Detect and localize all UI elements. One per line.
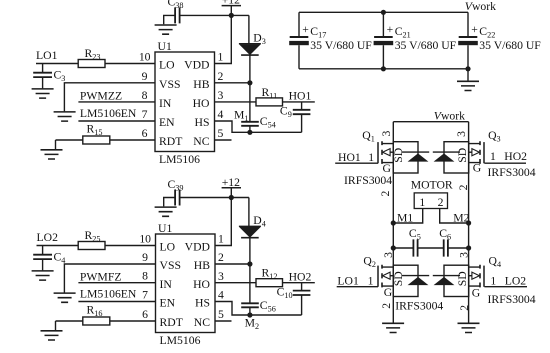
svg-text:G: G	[472, 286, 481, 299]
svg-text:+: +	[302, 23, 309, 36]
wire diode to HB node	[249, 55, 251, 83]
capacitor C39	[175, 190, 180, 206]
wire HB pin 2	[215, 82, 250, 84]
svg-text:PWMZZ: PWMZZ	[80, 90, 122, 103]
junction HB node	[247, 80, 252, 85]
svg-text:3: 3	[218, 89, 224, 102]
ground for VSS	[54, 293, 76, 302]
svg-text:1: 1	[218, 233, 224, 246]
svg-text:7: 7	[142, 289, 148, 302]
wire PWMZZ to IN pin 8	[78, 101, 155, 103]
wire Q3 gate to HO2 net	[484, 162, 526, 164]
svg-text:1: 1	[368, 274, 374, 287]
+12 bar	[222, 187, 241, 189]
svg-text:1: 1	[218, 51, 224, 64]
svg-text:NC: NC	[193, 135, 209, 148]
svg-text:Vwork: Vwork	[434, 110, 465, 123]
junction M2 node	[466, 220, 471, 225]
wire cap to ground	[42, 77, 44, 88]
wire down to C3	[42, 64, 44, 73]
svg-text:LO1: LO1	[337, 274, 359, 287]
wire +12 bar down	[230, 188, 232, 198]
wire bootstrap cap to HS node	[249, 307, 251, 315]
diode D3	[239, 43, 261, 45]
ground under Q2	[382, 323, 404, 332]
wire HS pin 4 to switch node	[215, 302, 302, 316]
wire down to ground	[55, 321, 57, 330]
svg-text:2: 2	[218, 251, 224, 264]
svg-text:35 V/680 UF: 35 V/680 UF	[310, 39, 372, 52]
svg-text:1: 1	[368, 151, 374, 164]
capacitor C5	[413, 239, 417, 256]
wire motor pin2 to M2 node	[440, 209, 469, 224]
svg-text:+: +	[387, 23, 394, 36]
svg-text:M1: M1	[397, 211, 413, 224]
svg-text:LO1: LO1	[36, 49, 58, 62]
wire M1 leg to C5	[393, 247, 413, 249]
resistor R11	[256, 98, 283, 106]
svg-text:LM5106EN: LM5106EN	[80, 288, 137, 301]
wire down to C10	[301, 283, 303, 291]
svg-text:10: 10	[139, 233, 151, 246]
ground under C4	[32, 271, 54, 280]
junction HS / M node	[247, 312, 252, 317]
wire bridge top rail	[393, 121, 468, 123]
wire cap to ground	[164, 15, 175, 24]
wire HB node down to bootstrap cap	[249, 83, 251, 122]
junction HB node	[247, 261, 252, 266]
svg-text:VSS: VSS	[160, 259, 181, 272]
wire HS pin 4 to switch node	[215, 121, 302, 132]
ground for R16	[41, 331, 63, 340]
svg-text:2: 2	[458, 305, 471, 311]
wire R to HO1 net	[283, 101, 315, 103]
junction C21 top	[381, 10, 386, 15]
wire HO pin 3	[215, 101, 257, 103]
ground for R15	[41, 150, 63, 159]
svg-text:IRFS3004: IRFS3004	[395, 300, 443, 313]
svg-text:1: 1	[419, 196, 425, 209]
svg-text:G: G	[473, 161, 482, 174]
junction +12 node	[229, 13, 234, 18]
wire Q4 gate to LO2 net	[484, 286, 527, 288]
wire bootstrap cap to HS node	[249, 126, 251, 133]
wire R to HO2 net	[283, 282, 315, 284]
wire cap to +12 node	[180, 14, 249, 16]
svg-text:7: 7	[142, 108, 148, 121]
wire down to C4	[42, 246, 44, 255]
svg-text:IN: IN	[159, 97, 172, 110]
wire to C17 +	[298, 12, 300, 37]
svg-text:IRFS3004: IRFS3004	[488, 293, 536, 306]
svg-text:LO2: LO2	[505, 274, 527, 287]
svg-text:VDD: VDD	[185, 241, 210, 254]
wire cap to ground	[42, 259, 44, 270]
capacitor C38	[175, 7, 180, 23]
wire cap down to HS line	[301, 114, 303, 132]
svg-text:LO: LO	[160, 241, 176, 254]
svg-text:3: 3	[380, 131, 393, 137]
svg-text:Vwork: Vwork	[465, 0, 496, 13]
wire ground to R16	[56, 320, 83, 322]
+12 bar	[222, 5, 241, 7]
transistor Q4 (IRFS3004 MOSFET symbol with body diode)	[433, 265, 484, 297]
svg-text:G: G	[384, 286, 393, 299]
wire HO pin 3	[215, 282, 256, 284]
svg-text:U1: U1	[158, 40, 172, 53]
svg-text:HO: HO	[193, 97, 210, 110]
wire LM5106EN to EN pin 7	[78, 120, 155, 122]
transistor Q3 (IRFS3004 MOSFET symbol with body diode)	[433, 141, 484, 173]
svg-text:RDT: RDT	[159, 135, 182, 148]
wire cap to ground	[164, 198, 175, 207]
resistor R23	[78, 60, 105, 68]
svg-text:2: 2	[438, 196, 444, 209]
ground for C38	[155, 25, 177, 34]
wire left leg Q1-Q2	[392, 122, 394, 323]
wire to cap bank ground	[467, 69, 469, 81]
junction HS / M node	[247, 130, 252, 135]
svg-text:5: 5	[218, 127, 224, 140]
svg-text:U1: U1	[158, 222, 172, 235]
wire to C21 +	[382, 12, 384, 37]
wire diode to HB node	[249, 238, 251, 264]
wire LO1 net to Q2 gate	[337, 286, 378, 288]
svg-text:IN: IN	[160, 278, 173, 291]
junction C5 left	[391, 245, 396, 250]
wire down to C9	[301, 102, 303, 110]
wire +12 node to D4	[248, 198, 250, 227]
op-amp/driver IC U1 bottom LM5106	[156, 234, 216, 333]
resistor R25	[78, 242, 105, 250]
svg-text:HO: HO	[193, 278, 210, 291]
svg-text:35 V/680 UF: 35 V/680 UF	[479, 39, 541, 52]
svg-text:EN: EN	[160, 297, 176, 310]
wire R to RDT pin 6	[110, 320, 156, 322]
wire +12 node to VDD pin 1	[215, 198, 231, 246]
wire cap to +12 node	[180, 197, 249, 199]
wire motor pin1 to M1 node	[393, 209, 422, 224]
svg-text:HS: HS	[195, 116, 210, 129]
wire R to pin 10	[105, 63, 155, 65]
svg-text:6: 6	[142, 308, 148, 321]
wire right leg Q3-Q4	[468, 122, 470, 323]
svg-text:PWMFZ: PWMFZ	[80, 271, 122, 284]
svg-text:+: +	[471, 23, 478, 36]
ground under Q4	[458, 323, 480, 332]
ground of cap bank	[457, 81, 479, 90]
transistor Q2 (IRFS3004 MOSFET symbol with body diode)	[378, 265, 429, 297]
svg-text:4: 4	[218, 289, 224, 302]
svg-text:3: 3	[455, 131, 468, 137]
wire ground to R15	[56, 139, 83, 141]
svg-text:6: 6	[142, 127, 148, 140]
capacitor C6	[444, 239, 448, 256]
svg-text:VDD: VDD	[184, 59, 209, 72]
svg-text:3: 3	[457, 252, 470, 258]
svg-text:LO: LO	[159, 59, 175, 72]
capacitor C9	[293, 110, 311, 114]
wire LO1 to R left	[36, 63, 78, 65]
wire R to pin 10	[105, 245, 156, 247]
junction M1 node	[391, 220, 396, 225]
capacitor C10	[293, 291, 311, 295]
transistor Q1 (IRFS3004 MOSFET symbol with body diode)	[378, 141, 429, 173]
wire PWMFZ to IN pin 8	[78, 282, 155, 284]
resistor R12	[256, 279, 283, 287]
wire HB node down to bootstrap cap	[249, 264, 251, 303]
svg-text:HO2: HO2	[289, 270, 312, 283]
wire +12 node to VDD pin 1	[215, 15, 232, 63]
junction C21 bottom	[381, 66, 386, 71]
wire VSS pin 9 to ground	[64, 83, 155, 112]
capacitor C54	[241, 122, 259, 126]
wire C21 to bottom rail	[382, 45, 384, 69]
svg-text:MOTOR: MOTOR	[411, 179, 453, 192]
ground under C3	[32, 89, 54, 98]
svg-text:HO2: HO2	[504, 150, 527, 163]
wire cap bank bottom rail	[299, 68, 468, 70]
svg-text:LM5106: LM5106	[160, 334, 201, 347]
junction C6 right	[466, 245, 471, 250]
svg-text:EN: EN	[159, 116, 175, 129]
svg-text:M2: M2	[453, 211, 469, 224]
junction +12 node	[229, 195, 234, 200]
wire down to ground	[55, 140, 57, 149]
electrolytic capacitor C22	[459, 36, 478, 38]
svg-text:5: 5	[218, 308, 224, 321]
svg-text:HB: HB	[194, 259, 210, 272]
svg-text:2: 2	[379, 191, 392, 197]
svg-text:4: 4	[218, 108, 224, 121]
svg-text:9: 9	[142, 251, 148, 264]
svg-text:HO1: HO1	[338, 151, 361, 164]
svg-text:LM5106EN: LM5106EN	[80, 107, 137, 120]
wire NC pin 5 stub	[215, 320, 232, 322]
svg-text:35 V/680 UF: 35 V/680 UF	[395, 39, 457, 52]
wire +12 bar down	[230, 6, 232, 16]
svg-text:SD: SD	[456, 271, 469, 286]
svg-text:2: 2	[457, 184, 470, 190]
diode D4	[239, 225, 261, 227]
svg-text:VSS: VSS	[159, 78, 180, 91]
svg-text:3: 3	[382, 252, 395, 258]
svg-text:SD: SD	[392, 148, 405, 163]
op-amp/driver IC U1 top LM5106	[155, 52, 215, 152]
wire R to RDT pin 6	[110, 139, 155, 141]
wire cap down to HS line	[301, 295, 303, 315]
svg-text:2: 2	[218, 70, 224, 83]
electrolytic capacitor C21	[374, 36, 393, 38]
svg-text:8: 8	[142, 270, 148, 283]
wire LO2 to R left	[37, 245, 78, 247]
svg-text:HB: HB	[193, 78, 209, 91]
capacitor C4	[33, 255, 52, 259]
svg-text:10: 10	[139, 51, 151, 64]
svg-text:3: 3	[218, 270, 224, 283]
svg-text:SD: SD	[392, 271, 405, 286]
svg-text:1: 1	[490, 274, 496, 287]
svg-text:1: 1	[490, 150, 496, 163]
svg-text:HS: HS	[195, 297, 210, 310]
capacitor C3	[33, 73, 52, 77]
svg-text:2: 2	[380, 303, 393, 309]
electrolytic capacitor C17	[290, 36, 309, 38]
resistor R15	[83, 136, 110, 144]
ground for C39	[155, 207, 177, 216]
svg-text:NC: NC	[194, 316, 210, 329]
svg-text:HO1: HO1	[289, 90, 312, 103]
svg-text:LO2: LO2	[37, 231, 59, 244]
wire HB pin 2	[215, 263, 250, 265]
wire C17 to bottom rail	[298, 45, 300, 69]
svg-text:9: 9	[142, 70, 148, 83]
resistor R16	[83, 317, 110, 325]
wire Vwork top rail	[299, 11, 468, 13]
svg-text:+12: +12	[222, 176, 240, 189]
wire +12 node to D3	[248, 15, 250, 43]
svg-text:8: 8	[142, 89, 148, 102]
svg-text:C38: C38	[168, 0, 184, 10]
svg-text:SD: SD	[456, 148, 469, 163]
wire NC pin 5 stub	[215, 139, 232, 141]
wire HO1 net to Q1 gate	[335, 162, 378, 164]
wire LM5106EN to EN pin 7	[78, 301, 155, 303]
svg-text:IRFS3004: IRFS3004	[488, 166, 536, 179]
wire C5 to C6	[418, 247, 444, 249]
wire C6 to M2 leg	[448, 247, 469, 249]
wire C22 to bottom rail	[467, 45, 469, 69]
capacitor C56	[241, 303, 259, 307]
ground for VSS	[54, 112, 76, 121]
wire VSS pin 9 to ground	[64, 264, 155, 293]
wire to C22 +	[467, 12, 469, 37]
junction C22 bottom / ground	[465, 66, 470, 71]
svg-text:RDT: RDT	[160, 316, 183, 329]
svg-text:LM5106: LM5106	[159, 153, 200, 166]
svg-text:IRFS3004: IRFS3004	[344, 174, 392, 187]
